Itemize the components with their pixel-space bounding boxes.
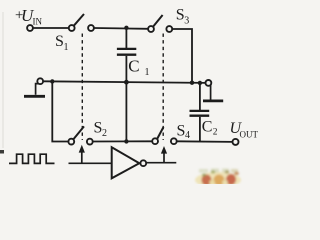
clock waveform symbol xyxy=(9,154,55,163)
switch S4 xyxy=(152,127,177,144)
node rail / C2 stem xyxy=(198,81,202,85)
label S1 xyxy=(55,33,69,53)
wire S4 to UOUT xyxy=(177,140,233,143)
svg-text:IN: IN xyxy=(33,17,43,27)
node rail / S2 drop xyxy=(50,79,54,83)
label C1 xyxy=(128,57,149,79)
switch S1 xyxy=(69,14,94,31)
svg-text:1: 1 xyxy=(64,42,69,53)
label S3 xyxy=(176,7,190,27)
scan edge artifact line xyxy=(0,12,4,154)
ground right xyxy=(203,85,223,101)
svg-text:C: C xyxy=(128,57,139,76)
wire UIN to S1 xyxy=(33,27,69,29)
arrow control S4 xyxy=(161,146,167,163)
watermark logo xyxy=(195,169,241,189)
inverter U1 xyxy=(112,147,147,178)
terminal +UIN xyxy=(27,25,33,31)
svg-text:4: 4 xyxy=(185,130,190,141)
wire S1 to S3 xyxy=(94,27,148,30)
node rail / C1 lead xyxy=(124,80,129,85)
label S4 xyxy=(177,123,191,141)
wire S2 to S4 xyxy=(93,140,152,142)
svg-text:2: 2 xyxy=(213,127,218,137)
wire left drop rail to S2 xyxy=(52,81,68,141)
capacitor C2 xyxy=(190,83,210,141)
capacitor C1 xyxy=(117,28,136,142)
svg-text:C: C xyxy=(202,119,213,136)
node rail / S3 drop xyxy=(190,81,194,85)
wire inverter input xyxy=(69,162,112,164)
wire inverter output xyxy=(146,162,176,164)
switch S2 xyxy=(68,126,92,144)
svg-text:OUT: OUT xyxy=(240,130,259,140)
node bottom wire / C1 lead xyxy=(124,139,128,143)
svg-text:2: 2 xyxy=(102,128,107,139)
svg-text:1: 1 xyxy=(145,67,150,78)
label UOUT xyxy=(230,120,259,140)
node C1 top junction xyxy=(124,26,128,30)
terminal ground right xyxy=(206,80,212,86)
arrow control S2 xyxy=(79,145,85,164)
label S2 xyxy=(94,120,108,139)
dashed coupling line S1-S2 xyxy=(81,34,83,141)
terminal UOUT xyxy=(233,139,239,145)
wire S3 right elbow down to middle rail xyxy=(172,29,192,83)
svg-text:3: 3 xyxy=(184,16,189,27)
dashed coupling line S3-S4 xyxy=(162,34,164,141)
middle rail wire xyxy=(43,81,205,83)
ground left xyxy=(24,84,45,97)
switch S3 xyxy=(148,15,172,32)
label C2 xyxy=(202,119,218,138)
terminal ground left xyxy=(37,78,43,84)
label +UIN xyxy=(14,6,42,27)
